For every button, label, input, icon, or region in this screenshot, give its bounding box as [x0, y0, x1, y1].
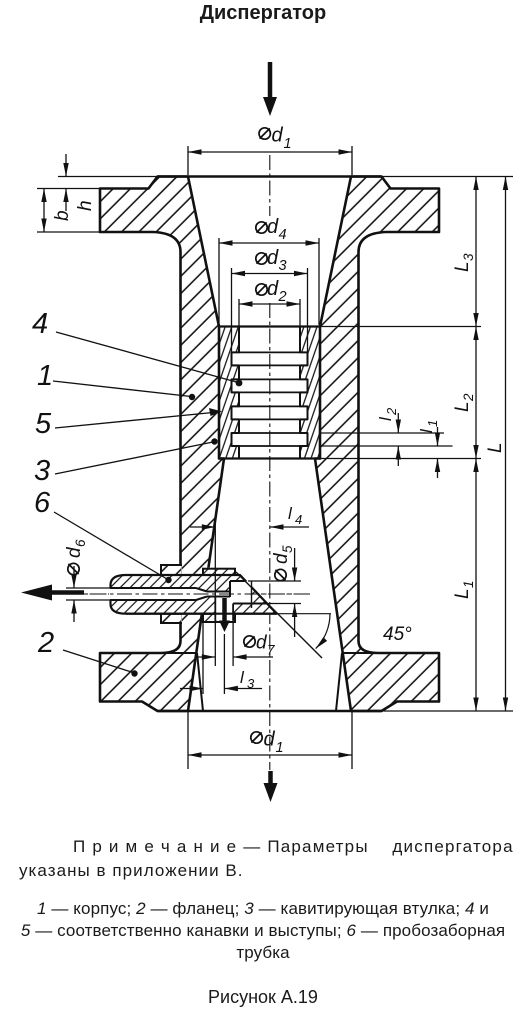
- tube outer bottom edge across hole: [126, 613, 277, 615]
- tube big bore d5 (white): [230, 581, 252, 604]
- body left section (корпус 1 + top flange + bottom flange left): [100, 177, 224, 712]
- recess/bottom flange-line extensions left (for b,h): [37, 188, 100, 190]
- svg-text:3: 3: [34, 455, 50, 487]
- flange fit line bottom right: [336, 653, 342, 711]
- leader 5: [55, 412, 218, 428]
- label Ød7: [244, 636, 255, 647]
- sample tube 6: white underlay: [109, 574, 277, 615]
- main vertical centerline: [269, 155, 271, 216]
- l3 dimension: [180, 688, 203, 690]
- svg-text:1: 1: [37, 360, 53, 392]
- svg-text:7: 7: [267, 643, 275, 658]
- svg-text:1: 1: [461, 580, 476, 588]
- legend: [0, 899, 526, 919]
- note paragraph: [73, 837, 514, 857]
- bottom face thin extension right: [384, 710, 514, 712]
- l4 extension line (d7 hole left edge up): [214, 521, 216, 600]
- top surface thin extensions: [58, 176, 158, 178]
- svg-text:1: 1: [425, 420, 440, 427]
- L3/L2 boundary extension line: [320, 326, 481, 328]
- label Ød1 top: [259, 128, 270, 139]
- d2 extension lines: [238, 299, 240, 326]
- d1 bottom dimension line: [188, 754, 352, 756]
- svg-text:d: d: [267, 247, 279, 269]
- svg-text:L: L: [452, 401, 473, 412]
- d7 hole side walls: [214, 597, 216, 621]
- label Ød3: [256, 253, 267, 264]
- svg-text:2: 2: [278, 289, 287, 305]
- label Ød6 (rotated): [64, 539, 88, 575]
- sample tube 6: silhouette: [111, 575, 277, 614]
- wall boss bottom: [161, 614, 181, 623]
- d2 dimension line: [239, 303, 300, 305]
- d7 hole through tube wall (white): [215, 598, 233, 621]
- svg-text:d: d: [264, 729, 276, 751]
- l2 groove line extensions: [319, 432, 444, 434]
- tube small bore d6 (white, tapering to throat): [109, 588, 230, 600]
- wall boss top: [161, 565, 181, 575]
- d4 dimension line: [219, 242, 319, 244]
- leader 1: [53, 381, 191, 397]
- svg-text:2: 2: [461, 393, 476, 402]
- d6 dimension arrows: [73, 566, 75, 588]
- label Ød4: [256, 222, 267, 233]
- tube bottom line thin extension to 45deg vertex: [277, 613, 331, 615]
- flange top face inner segments: [161, 652, 197, 654]
- L2 dimension: [475, 327, 477, 459]
- svg-text:d: d: [272, 125, 284, 147]
- svg-text:l: l: [288, 504, 293, 523]
- L dimension: [505, 177, 507, 712]
- sleeve pocket top edge: [219, 325, 320, 327]
- svg-text:h: h: [75, 200, 96, 211]
- b dimension: [43, 189, 45, 233]
- svg-text:5: 5: [35, 408, 52, 440]
- d7 hole edge extensions below tube: [214, 621, 216, 667]
- d1 bottom extension lines: [187, 711, 189, 769]
- l3 extension lines: [202, 618, 204, 694]
- svg-text:d: d: [267, 216, 279, 238]
- top face edge line: [158, 175, 382, 177]
- svg-text:45°: 45°: [383, 624, 412, 645]
- L1 dimension: [475, 459, 477, 712]
- L3 dimension: [475, 177, 477, 327]
- thick flow arrow down (sample hole): [222, 598, 227, 622]
- svg-text:6: 6: [34, 487, 51, 519]
- tube end face: [251, 581, 253, 608]
- tube collar bottom bump: [203, 614, 235, 622]
- svg-text:l: l: [240, 668, 245, 687]
- svg-text:1: 1: [284, 136, 292, 152]
- leader 6: [54, 512, 167, 579]
- label l1 (rotated): [417, 420, 440, 433]
- svg-text:1: 1: [276, 740, 284, 756]
- svg-text:b: b: [52, 210, 73, 221]
- label l2 (rotated): [376, 407, 399, 421]
- title: [0, 2, 526, 25]
- body right section (корпус 1 + flanges, right half): [315, 177, 439, 712]
- d4 extension lines: [218, 238, 220, 325]
- L2/L1 boundary extension line: [320, 458, 481, 460]
- leader 4: [56, 332, 238, 383]
- svg-text:3: 3: [279, 258, 287, 274]
- cavitating sleeve 3: right wall: [300, 327, 320, 459]
- svg-text:3: 3: [461, 253, 476, 261]
- sleeve pocket bottom edge: [219, 457, 320, 459]
- svg-text:d: d: [267, 278, 279, 300]
- bottom face edge line: [158, 710, 382, 712]
- label L3 (rotated): [452, 253, 476, 272]
- svg-text:l: l: [376, 416, 395, 421]
- svg-text:5: 5: [280, 545, 295, 553]
- label Ød2: [256, 284, 267, 295]
- svg-text:4: 4: [32, 308, 48, 340]
- d7 dimension: [196, 656, 215, 658]
- l1 dimension arrows: [437, 427, 439, 446]
- d1 top extension lines: [187, 146, 189, 175]
- tube horizontal centerline again over bore: [66, 593, 310, 595]
- leader 3: [55, 442, 213, 474]
- d1 top dimension line: [188, 151, 352, 153]
- svg-text:L: L: [452, 588, 473, 599]
- svg-text:2: 2: [384, 407, 399, 416]
- d3 dimension line: [232, 273, 308, 275]
- svg-text:3: 3: [247, 676, 255, 691]
- thick inlet arrow top: [268, 62, 273, 100]
- l4 dimension: [190, 526, 215, 528]
- h dimension arrows: [65, 154, 67, 177]
- thick outlet arrow bottom: [268, 771, 273, 786]
- svg-text:4: 4: [279, 227, 287, 243]
- svg-text:L: L: [452, 261, 473, 272]
- flange fit line bottom left (фланец 2): [197, 653, 203, 711]
- svg-text:4: 4: [295, 512, 302, 527]
- label L (rotated): [485, 442, 506, 453]
- label L2 (rotated): [452, 393, 476, 412]
- tube collar top bump: [203, 569, 235, 575]
- label b (rotated): [52, 210, 73, 221]
- leader 2: [63, 650, 133, 673]
- 45deg arc with arrow: [316, 614, 330, 649]
- l2 dimension arrows: [397, 413, 399, 433]
- svg-text:2: 2: [37, 627, 54, 659]
- d3 extension lines: [231, 268, 233, 352]
- figure caption: [0, 987, 526, 1008]
- tube horizontal centerline: [64, 593, 312, 595]
- d5 dimension arrows: [294, 548, 296, 581]
- 45 degree cut line extension: [236, 572, 322, 658]
- label Ød5 (rotated): [271, 545, 295, 581]
- d6 extension lines: [66, 587, 111, 589]
- svg-text:L: L: [485, 442, 506, 453]
- label h (rotated): [75, 200, 96, 211]
- groove horizontal edges (канавки 4): [232, 352, 308, 446]
- label L1 (rotated): [452, 580, 476, 599]
- svg-text:6: 6: [73, 539, 88, 547]
- bore outlines: [110, 581, 267, 604]
- cavitating sleeve 3: left wall: [219, 327, 239, 459]
- svg-text:l: l: [417, 428, 436, 433]
- label Ød1 bottom: [251, 732, 262, 743]
- thick flow arrow left (sample out): [50, 590, 84, 595]
- d5 extension lines right of tube: [248, 580, 301, 582]
